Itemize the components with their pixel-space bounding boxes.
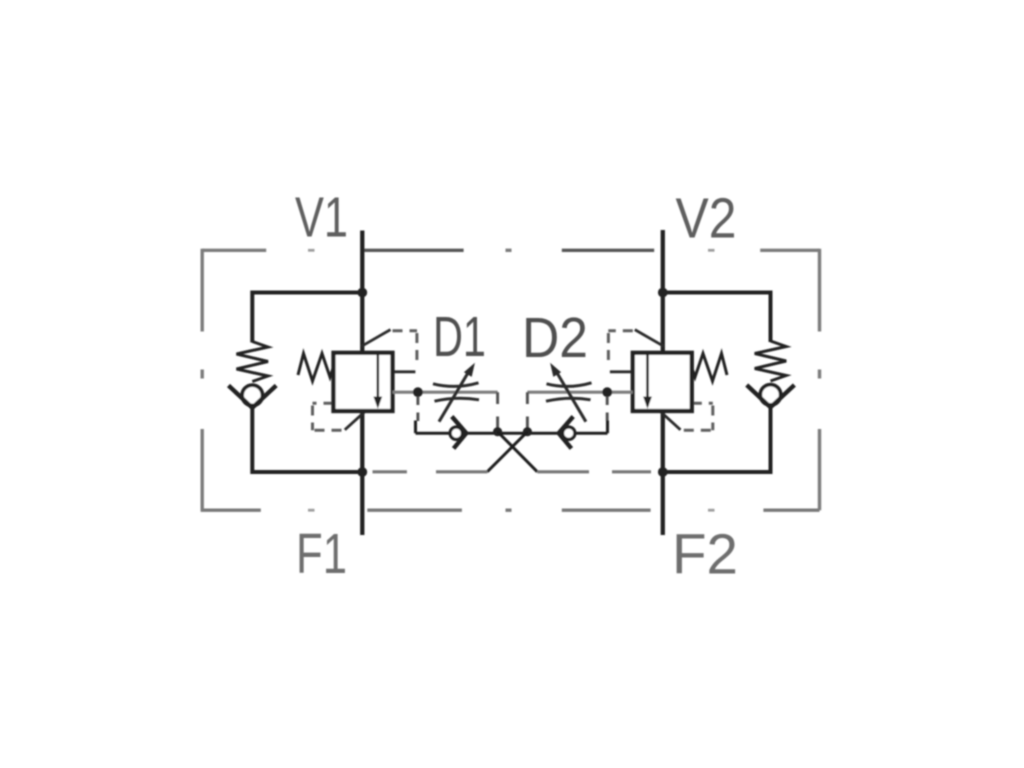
check valve ball right branch <box>760 385 780 405</box>
adjust arrow tail valve 2 <box>661 412 680 430</box>
enclosure dashed border top dark dashes <box>364 249 654 252</box>
counterbalance valve 1 body <box>334 353 393 411</box>
enclosure dashed border right <box>818 249 821 510</box>
wire V1 main line <box>360 231 364 353</box>
wire left branch lower <box>252 406 362 473</box>
wire left top branch <box>252 293 362 343</box>
node rail dot right <box>523 427 532 436</box>
check valve seat rail right <box>559 417 574 449</box>
check valve seat right branch <box>747 385 795 407</box>
wire cross line right to left <box>487 432 527 472</box>
svg-text:F2: F2 <box>672 523 738 587</box>
pilot dashed drop right of D1 <box>496 392 499 431</box>
restrictor D1 arcs <box>433 383 479 401</box>
restrictor D1 arrow <box>439 372 469 422</box>
flow arrow valve 2 <box>646 353 649 406</box>
node junction left top <box>357 288 367 298</box>
svg-text:V2: V2 <box>676 187 737 251</box>
spring check valve left <box>237 342 269 382</box>
restrictor D2 arrow <box>557 372 586 422</box>
pilot dashed loop bottom right valve 2 <box>680 403 713 430</box>
svg-text:F1: F1 <box>296 522 347 586</box>
enclosure dashed border bottom <box>201 509 820 512</box>
pilot dashed drop left of D1 <box>416 397 419 422</box>
spring check valve right <box>755 341 787 381</box>
wire right branch lower <box>663 405 771 472</box>
counterbalance valve 2 body <box>633 353 692 411</box>
pilot dashed bottom right <box>537 470 651 473</box>
pilot solid port line upper left valve 2 <box>610 370 633 373</box>
node pilot junction valve 1 <box>413 387 423 397</box>
check valve seat left branch <box>229 386 277 408</box>
pilot solid port line upper right valve 1 <box>393 370 416 373</box>
pilot dashed drop left of D2 <box>526 392 529 431</box>
check valve ball rail right <box>563 427 575 439</box>
pilot dashed loop bottom left valve 1 <box>313 403 346 430</box>
wire F2 main line <box>661 411 665 535</box>
svg-text:D1: D1 <box>433 305 486 369</box>
pilot line valve 1 to restrictor D1 <box>393 391 498 394</box>
spring counterbalance valve 2 <box>692 354 728 382</box>
check valve seat rail left <box>452 417 467 449</box>
wire cross line left to right <box>498 432 538 472</box>
wire V2 main line <box>661 230 665 353</box>
enclosure dashed border left <box>200 249 203 510</box>
node junction right bottom <box>658 467 668 477</box>
check valve ball left branch <box>242 385 262 405</box>
restrictor D2 arcs <box>546 383 592 401</box>
pilot line valve 2 to restrictor D2 <box>527 391 632 394</box>
wire right top branch <box>663 293 771 343</box>
adjust arrow tail valve 1 <box>345 412 364 430</box>
wire check rail <box>416 432 608 435</box>
wire rail riser right <box>606 421 609 434</box>
flow arrow valve 1 <box>376 353 379 406</box>
pilot dashed loop top right valve 1 <box>393 331 418 364</box>
node junction right top <box>658 288 668 298</box>
node rail dot left <box>493 427 502 436</box>
svg-text:V1: V1 <box>295 186 348 250</box>
pilot dashed bottom left <box>373 470 488 473</box>
svg-text:D2: D2 <box>522 306 588 370</box>
enclosure faint dash remnants <box>308 250 715 510</box>
pilot dashed drop right of D2 <box>606 397 609 422</box>
check valve ball rail left <box>450 427 462 439</box>
pilot dashed loop top left valve 2 <box>608 331 633 364</box>
spring counterbalance valve 1 <box>298 354 334 382</box>
enclosure dashed border top <box>202 249 819 252</box>
adjust arrow head segment valve 2 <box>635 330 664 347</box>
node pilot junction valve 2 <box>602 387 612 397</box>
node junction left bottom <box>357 467 367 477</box>
wire F1 main line <box>360 411 364 535</box>
adjust arrow head segment valve 1 <box>362 330 391 347</box>
wire rail riser left <box>414 421 417 434</box>
